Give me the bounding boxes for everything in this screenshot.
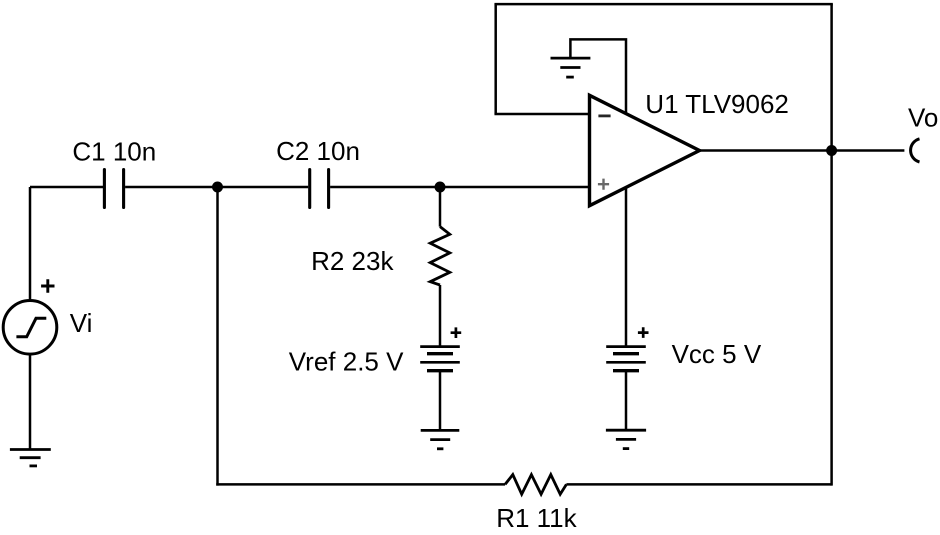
wire feedback left vertical	[494, 4, 497, 114]
capacitor C2	[276, 136, 360, 207]
wire feedback top horizontal	[494, 3, 832, 6]
wire C1 to node A	[125, 186, 217, 189]
svg-text:U1 TLV9062: U1 TLV9062	[645, 89, 789, 119]
resistor R2 23k	[311, 227, 450, 285]
wire node A down to feedback bottom rail	[216, 187, 219, 486]
capacitor C1	[72, 137, 156, 208]
svg-text:C1 10n: C1 10n	[72, 137, 156, 167]
svg-text:Vi: Vi	[70, 308, 93, 338]
wire Vi top (main wire down to source)	[29, 187, 32, 299]
node A junction dot	[212, 182, 223, 193]
wire main input segment left	[30, 186, 103, 189]
svg-text:Vo: Vo	[908, 103, 938, 133]
connector Vo terminal	[908, 103, 938, 163]
wire op-amp minus input	[494, 113, 589, 116]
node B junction dot	[435, 182, 446, 193]
wire node B to op-amp plus input	[440, 186, 590, 189]
wire node A to C2	[218, 186, 309, 189]
wire op-amp top power pin	[570, 39, 626, 114]
wire R2 to Vref battery	[439, 285, 442, 347]
svg-text:Vref 2.5 V: Vref 2.5 V	[289, 347, 404, 377]
node C output junction dot	[826, 145, 837, 156]
wire node B down to R2	[439, 187, 442, 227]
wire op-amp output	[700, 149, 905, 152]
wire bottom rail left segment	[216, 483, 505, 486]
svg-text:C2 10n: C2 10n	[276, 136, 360, 166]
ground (Vref)	[421, 430, 460, 448]
svg-text:R1 11k: R1 11k	[496, 503, 577, 533]
battery Vcc 5 V	[606, 327, 762, 370]
wire Vref battery to ground	[439, 371, 442, 431]
wire bottom rail right segment	[566, 483, 831, 486]
op-amp U1 TLV9062	[590, 89, 789, 206]
wire Vi to ground	[29, 354, 32, 449]
battery Vref 2.5 V	[289, 327, 461, 376]
svg-text:R2 23k: R2 23k	[311, 246, 394, 276]
ground (Vcc)	[606, 430, 646, 448]
ground (op-amp top)	[551, 58, 591, 77]
svg-text:Vcc 5 V: Vcc 5 V	[672, 339, 762, 369]
wire feedback right vertical to output node	[830, 4, 833, 486]
source Vi	[3, 279, 92, 354]
wire C2 to node B	[330, 186, 440, 189]
resistor R1 11k	[496, 475, 577, 533]
wire op-amp bottom power pin to Vcc battery	[625, 187, 628, 346]
ground (Vi)	[10, 450, 51, 466]
wire Vcc battery to ground	[625, 371, 628, 431]
